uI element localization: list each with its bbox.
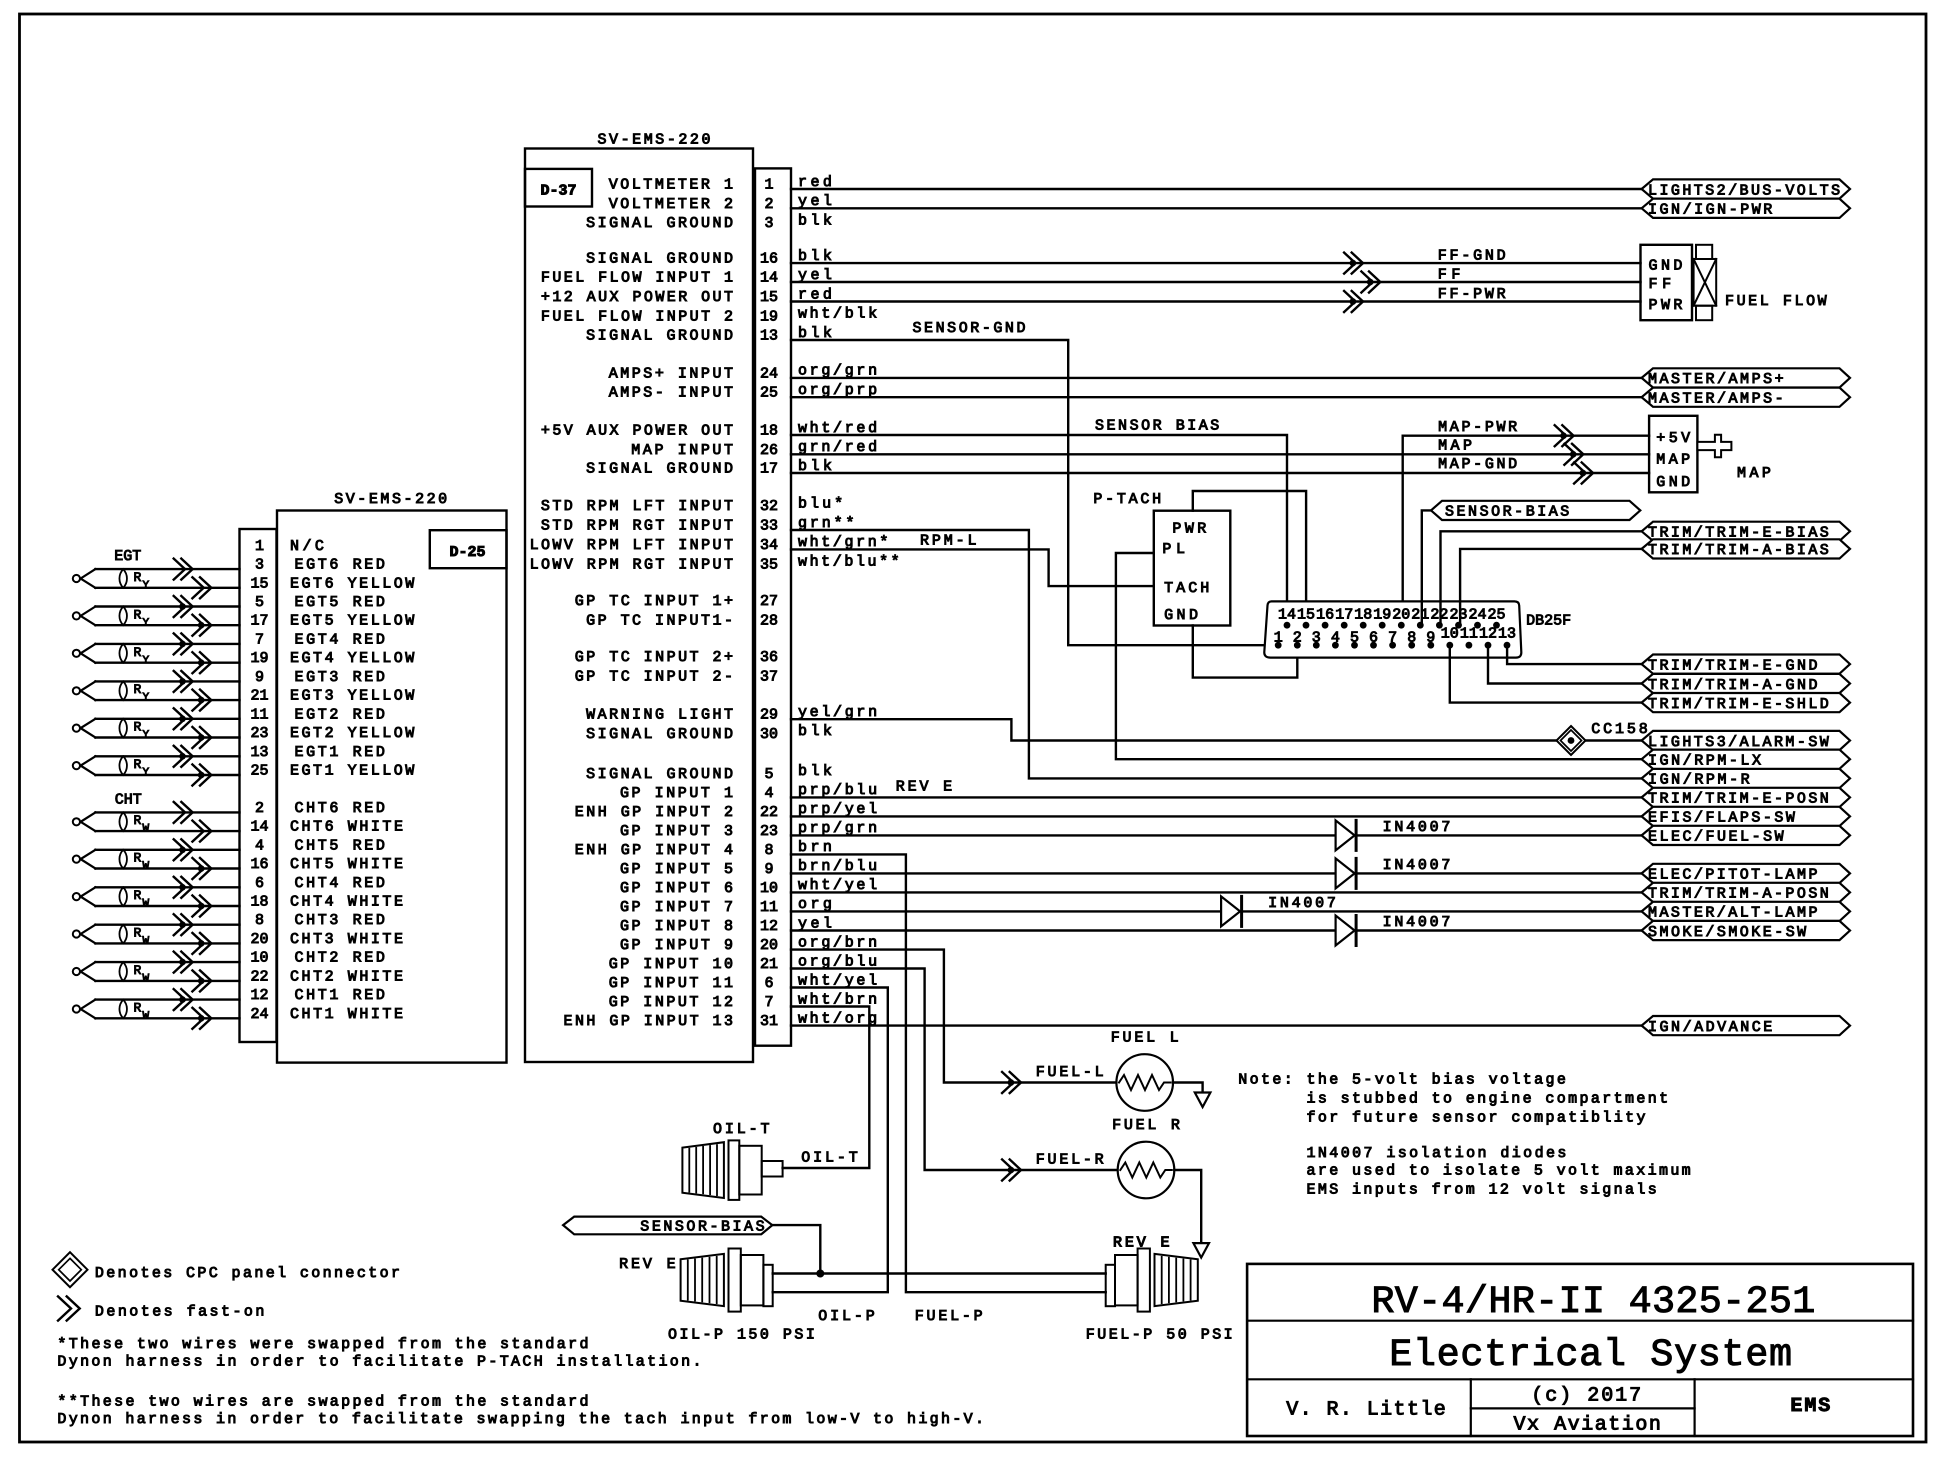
svg-text:VOLTMETER 1: VOLTMETER 1 [609, 177, 733, 194]
svg-text:28: 28 [760, 612, 778, 629]
MAP hose barb [1697, 435, 1731, 458]
connector D-37 label box [525, 169, 592, 207]
svg-text:2: 2 [255, 800, 264, 817]
svg-text:4: 4 [255, 837, 264, 854]
svg-text:8: 8 [764, 842, 773, 859]
svg-text:6: 6 [764, 975, 773, 992]
svg-text:29: 29 [760, 707, 778, 724]
fast-on CHT4 lead 2 [192, 896, 211, 917]
FUEL FLOW bottom lug [1696, 306, 1712, 321]
svg-text:17: 17 [1335, 606, 1353, 623]
net flag SENSOR-BIAS (upper) [1431, 501, 1640, 520]
fast-on EGT3 lead 2 [192, 690, 211, 711]
diode D1 IN4007 [1336, 820, 1355, 850]
svg-text:4: 4 [764, 785, 773, 802]
resistive sender FUEL L [1116, 1054, 1173, 1111]
svg-text:4: 4 [1331, 629, 1340, 646]
svg-text:27: 27 [760, 593, 778, 610]
net flag TRIM/TRIM-E-BIAS [1642, 522, 1850, 541]
svg-text:EGT4 YELLOW: EGT4 YELLOW [290, 650, 414, 667]
svg-text:16: 16 [760, 251, 778, 268]
net flag SMOKE/SMOKE-SW [1642, 921, 1850, 940]
wire EGT3 red lead [95, 680, 239, 682]
fast-on FF-GND [1344, 253, 1363, 274]
svg-text:17: 17 [250, 613, 268, 630]
sensor OIL-P flange [729, 1249, 741, 1312]
wire diode D1 to ELEC/FUEL-SW [1356, 834, 1642, 836]
svg-text:PWR: PWR [1649, 297, 1683, 314]
svg-text:OIL-P: OIL-P [818, 1308, 875, 1325]
svg-text:REV E: REV E [619, 1256, 676, 1273]
svg-text:19: 19 [760, 308, 778, 325]
svg-text:W: W [143, 1011, 150, 1023]
wire CHT6 red lead [95, 811, 239, 813]
svg-text:1: 1 [764, 177, 773, 194]
svg-text:25: 25 [1487, 606, 1505, 623]
svg-text:12: 12 [1479, 626, 1497, 643]
svg-text:R: R [134, 645, 142, 660]
net flag SENSOR-BIAS (lower) [563, 1217, 772, 1235]
svg-text:8: 8 [255, 912, 264, 929]
svg-text:R: R [134, 963, 142, 978]
svg-text:R: R [134, 813, 142, 828]
net flag TRIM/TRIM-E-SHLD [1642, 693, 1850, 712]
fast-on EGT2 lead 1 [174, 708, 193, 729]
svg-text:36: 36 [760, 649, 778, 666]
thermocouple probe EGT2 [73, 725, 80, 732]
wire DB25F pin12 to TRIM-A-GND [1488, 645, 1642, 683]
net flag MASTER/AMPS+ [1642, 368, 1850, 387]
thermocouple probe CHT5 [73, 856, 80, 863]
svg-text:R: R [134, 888, 142, 903]
wire CHT6 white lead [95, 830, 239, 832]
svg-text:W: W [143, 861, 150, 873]
fast-on EGT3 lead 1 [174, 671, 193, 692]
svg-text:W: W [143, 936, 150, 948]
fast-on EGT4 lead 2 [192, 652, 211, 673]
svg-text:Note: the 5-volt bias voltage: Note: the 5-volt bias voltage [1238, 1072, 1566, 1089]
connector D-37 pin column [755, 168, 791, 1045]
wire diode D4 to SMOKE/SMOKE-SW [1356, 929, 1642, 931]
svg-text:MAP INPUT: MAP INPUT [631, 442, 733, 459]
sensor OIL-P terminal [763, 1265, 772, 1306]
wire net MAP-PWR DB25F pin20 to MAP block [1403, 436, 1649, 626]
title block middle cell divider [1471, 1407, 1695, 1409]
svg-text:5: 5 [255, 594, 264, 611]
wire EGT6 yellow lead [95, 587, 239, 589]
wire net MAP (grn/red) pin26 to MAP block [791, 453, 1649, 455]
fast-on FF-PWR [1344, 291, 1363, 312]
svg-text:17: 17 [760, 461, 778, 478]
wire net OIL-P (wht/yel) pin6 to OIL-P sensor [773, 988, 888, 1293]
wire EGT6 red lead [95, 568, 239, 570]
title block vertical divider left [1470, 1379, 1472, 1436]
wire net SENSOR-GND (blk) pin13 to DB25F pin1 [791, 340, 1278, 645]
wire EGT4 red lead [95, 643, 239, 645]
wire net PITOT (brn/blu) pin9, diode feed [791, 872, 1336, 874]
fast-on CHT3 lead 1 [174, 914, 193, 935]
fast-on EGT4 lead 1 [174, 633, 193, 654]
svg-text:R: R [134, 720, 142, 735]
wire EGT1 red lead [95, 755, 239, 757]
wire DB25F pin13 to TRIM-E-GND [1507, 645, 1642, 664]
net flag TRIM/TRIM-A-POSN [1642, 883, 1850, 902]
svg-text:CHT: CHT [115, 791, 142, 808]
fast-on EGT1 lead 2 [192, 765, 211, 786]
svg-text:MASTER/ALT-LAMP: MASTER/ALT-LAMP [1648, 905, 1818, 922]
svg-text:+5V AUX POWER OUT: +5V AUX POWER OUT [541, 423, 733, 440]
svg-text:EGT1 YELLOW: EGT1 YELLOW [290, 763, 414, 780]
svg-text:OIL-T: OIL-T [713, 1121, 770, 1138]
svg-text:W: W [143, 898, 150, 910]
thermocouple probe EGT6 [73, 575, 80, 582]
wire DB25F pin10 to TRIM-E-SHLD [1450, 645, 1642, 702]
net flag EFIS/FLAPS-SW [1642, 807, 1850, 826]
svg-text:D-25: D-25 [449, 544, 485, 561]
connector D-37 body [525, 149, 753, 1063]
fast-on MAP-PWR [1555, 425, 1574, 446]
fast-on CHT2 lead 2 [192, 970, 211, 991]
svg-text:16: 16 [1316, 606, 1334, 623]
legend fast-on symbol [58, 1296, 80, 1320]
svg-text:9: 9 [1426, 629, 1435, 646]
net flag TRIM/TRIM-A-BIAS [1642, 539, 1850, 558]
svg-text:blk: blk [798, 723, 832, 740]
wire net RPM-L (wht/grn*) pin34 to P-TACH TACH [791, 549, 1154, 586]
svg-text:blk: blk [798, 212, 832, 229]
fast-on CHT1 lead 2 [192, 1008, 211, 1029]
title block divider 1 [1247, 1320, 1913, 1322]
wire EGT2 yellow lead [95, 736, 239, 738]
svg-text:EMS: EMS [1790, 1395, 1830, 1418]
title block vertical divider right [1693, 1379, 1695, 1436]
connector D-25 label box [430, 530, 507, 568]
svg-text:35: 35 [760, 556, 778, 573]
wire EGT1 yellow lead [95, 774, 239, 776]
wire net FF (yel) pin14 to FUEL FLOW [791, 281, 1641, 283]
fast-on CHT3 lead 2 [192, 933, 211, 954]
diode D3 IN4007 [1221, 896, 1240, 926]
fast-on FUEL-R [1002, 1160, 1021, 1181]
resistive sender FUEL R [1118, 1142, 1175, 1199]
svg-text:24: 24 [760, 365, 778, 382]
sensor OIL-T cone [682, 1142, 724, 1198]
svg-text:Electrical System: Electrical System [1389, 1333, 1792, 1377]
fast-on CHT5 lead 2 [192, 858, 211, 879]
diode D2 IN4007 [1336, 858, 1355, 888]
thermocouple probe CHT4 [73, 893, 80, 900]
svg-text:20: 20 [250, 931, 268, 948]
wire CHT3 white lead [95, 942, 239, 944]
svg-text:9: 9 [255, 669, 264, 686]
svg-text:7: 7 [764, 994, 773, 1011]
wire net WARNING LIGHT (yel/grn) pin29 to CC158 [791, 719, 1556, 740]
wire CHT1 red lead [95, 998, 239, 1000]
wire EGT5 red lead [95, 605, 239, 607]
svg-text:R: R [134, 682, 142, 697]
svg-text:Y: Y [143, 730, 150, 742]
wire net MAP-GND (blk) pin17 to MAP block [791, 472, 1649, 474]
wire P-TACH GND to DB25F pin2 [1193, 626, 1298, 678]
svg-text:MAP: MAP [1737, 465, 1771, 482]
wire net FF-GND (blk) pin16 to FUEL FLOW [791, 262, 1641, 264]
FUEL FLOW X-body [1694, 259, 1717, 306]
svg-text:blk: blk [798, 763, 832, 780]
svg-text:FUEL FLOW: FUEL FLOW [1725, 293, 1827, 310]
svg-text:Denotes CPC panel connector: Denotes CPC panel connector [95, 1265, 400, 1282]
svg-text:ENH GP INPUT 13: ENH GP INPUT 13 [564, 1013, 734, 1030]
svg-text:10: 10 [1441, 626, 1459, 643]
svg-text:19: 19 [250, 650, 268, 667]
thermocouple probe EGT4 [73, 650, 80, 657]
svg-text:AMPS- INPUT: AMPS- INPUT [609, 385, 733, 402]
svg-text:**These two wires are swapped: **These two wires are swapped from the s… [57, 1393, 588, 1410]
svg-text:IGN/IGN-PWR: IGN/IGN-PWR [1648, 202, 1772, 219]
wire net FUEL-L (org/brn) pin20 to FUEL L sender [791, 950, 1116, 1083]
sensor OIL-T terminal [762, 1161, 783, 1177]
svg-text:3: 3 [255, 557, 264, 574]
svg-text:15: 15 [250, 575, 268, 592]
svg-text:8: 8 [1407, 629, 1416, 646]
net flag ELEC/PITOT-LAMP [1642, 864, 1850, 883]
svg-text:19: 19 [1373, 606, 1391, 623]
svg-text:EGT6 YELLOW: EGT6 YELLOW [290, 575, 414, 592]
DB25F top row pin contacts 14-25 [1284, 622, 1291, 629]
sensor OIL-T flange [729, 1140, 740, 1200]
wire CHT4 red lead [95, 886, 239, 888]
svg-text:TRIM/TRIM-A-GND: TRIM/TRIM-A-GND [1648, 677, 1818, 694]
net flag LIGHTS2/BUS-VOLTS [1642, 179, 1850, 198]
fast-on EGT2 lead 2 [192, 727, 211, 748]
net flag MASTER/ALT-LAMP [1642, 902, 1850, 921]
fast-on CHT2 lead 1 [174, 952, 193, 973]
svg-text:PWR: PWR [1172, 520, 1206, 537]
svg-text:10: 10 [760, 880, 778, 897]
svg-text:7: 7 [1388, 629, 1397, 646]
svg-text:24: 24 [1468, 606, 1486, 623]
wire SENSOR-BIAS flag to DB25F pin21 [1422, 510, 1431, 625]
svg-text:31: 31 [760, 1013, 778, 1030]
svg-text:N/C: N/C [290, 538, 324, 555]
svg-text:11: 11 [760, 899, 778, 916]
sensor OIL-P body [741, 1255, 764, 1305]
svg-text:IGN/RPM-R: IGN/RPM-R [1648, 772, 1750, 789]
svg-text:STD RPM LFT INPUT: STD RPM LFT INPUT [541, 498, 733, 515]
wire SENSOR-BIAS to bias bus [772, 1225, 820, 1273]
sensor OIL-P cone [681, 1254, 724, 1306]
svg-text:12: 12 [250, 987, 268, 1004]
wire CC158 to LIGHTS3/ALARM-SW [1586, 739, 1642, 741]
svg-text:ELEC/PITOT-LAMP: ELEC/PITOT-LAMP [1648, 867, 1818, 884]
svg-text:wht/blk: wht/blk [798, 306, 877, 323]
wire net FF-PWR (red) pin15 to FUEL FLOW [791, 300, 1641, 302]
net flag IGN/RPM-R [1642, 769, 1850, 788]
sensor OIL-T body [739, 1146, 761, 1195]
svg-text:GND: GND [1164, 607, 1198, 624]
FUEL FLOW top lug [1696, 245, 1712, 259]
svg-text:R: R [134, 607, 142, 622]
svg-text:RV-4/HR-II 4325-251: RV-4/HR-II 4325-251 [1371, 1280, 1815, 1324]
svg-text:1: 1 [1274, 629, 1283, 646]
junction bias bus [816, 1270, 824, 1278]
svg-text:30: 30 [760, 726, 778, 743]
svg-text:LIGHTS2/BUS-VOLTS: LIGHTS2/BUS-VOLTS [1648, 182, 1840, 199]
svg-text:EGT5 YELLOW: EGT5 YELLOW [290, 613, 414, 630]
svg-text:R: R [134, 851, 142, 866]
svg-text:25: 25 [760, 385, 778, 402]
svg-text:6: 6 [255, 875, 264, 892]
wire net VOLTMETER2 (yel) pin2 to IGN/IGN-PWR [791, 207, 1642, 209]
net flag TRIM/TRIM-A-GND [1642, 674, 1850, 693]
svg-text:14: 14 [250, 819, 268, 836]
svg-text:20: 20 [1392, 606, 1410, 623]
wire net OIL-T (wht/brn) pin7 to OIL-T sensor [783, 1007, 870, 1169]
module FUEL FLOW body [1641, 245, 1693, 320]
wire net AMPS+ pin24 to MASTER/AMPS+ [791, 377, 1642, 379]
fast-on EGT5 lead 1 [174, 596, 193, 617]
svg-text:R: R [134, 926, 142, 941]
wire TRIM-A-BIAS to DB25F pin23 [1460, 549, 1642, 625]
wire EGT3 yellow lead [95, 699, 239, 701]
svg-text:AMPS+ INPUT: AMPS+ INPUT [609, 365, 733, 382]
fast-on MAP [1564, 444, 1583, 465]
fast-on FF [1361, 272, 1380, 293]
wire FUEL L to ground [1173, 1083, 1203, 1093]
svg-text:FUEL FLOW INPUT 1: FUEL FLOW INPUT 1 [541, 270, 733, 287]
fast-on EGT1 lead 1 [174, 746, 193, 767]
wire net TRIM-A-POSN (wht/yel) pin10 [791, 891, 1642, 893]
svg-text:DB25F: DB25F [1526, 613, 1571, 630]
wire net IGN/ADVANCE (wht/org) pin31 [791, 1024, 1642, 1026]
fast-on EGT5 lead 2 [192, 615, 211, 636]
svg-text:11: 11 [1460, 626, 1478, 643]
svg-text:16: 16 [250, 856, 268, 873]
svg-text:14: 14 [760, 270, 778, 287]
sensor FUEL-P body [1115, 1255, 1138, 1305]
wire net REV E (prp/blu) pin4 to TRIM/TRIM-E-POSN [791, 796, 1642, 798]
thermocouple probe CHT1 [73, 1005, 80, 1012]
thermocouple probe CHT6 [73, 818, 80, 825]
svg-text:1: 1 [255, 538, 264, 555]
wire FUEL R to ground [1174, 1170, 1201, 1243]
wire CHT5 red lead [95, 849, 239, 851]
svg-text:34: 34 [760, 537, 778, 554]
svg-text:Y: Y [143, 617, 150, 629]
svg-text:Vx Aviation: Vx Aviation [1514, 1414, 1661, 1437]
svg-text:SENSOR BIAS: SENSOR BIAS [1095, 418, 1219, 435]
wire EGT5 yellow lead [95, 624, 239, 626]
svg-text:10: 10 [250, 950, 268, 967]
svg-text:3: 3 [764, 215, 773, 232]
thermocouple probe EGT5 [73, 612, 80, 619]
svg-text:+5V: +5V [1656, 430, 1690, 447]
svg-text:21: 21 [1411, 606, 1429, 623]
wire diode D3 to MASTER/ALT-LAMP [1242, 910, 1642, 912]
svg-text:EGT: EGT [114, 548, 141, 565]
svg-text:SENSOR-BIAS: SENSOR-BIAS [640, 1219, 764, 1236]
svg-text:EGT2 YELLOW: EGT2 YELLOW [290, 725, 414, 742]
svg-text:13: 13 [760, 328, 778, 345]
thermocouple probe CHT3 [73, 930, 80, 937]
svg-text:22: 22 [250, 968, 268, 985]
fast-on CHT6 lead 2 [192, 821, 211, 842]
svg-text:37: 37 [760, 668, 778, 685]
svg-text:12: 12 [760, 918, 778, 935]
svg-text:GND: GND [1649, 258, 1683, 275]
svg-text:GP INPUT 12: GP INPUT 12 [609, 994, 733, 1011]
wire net FUEL-R (org/blu) pin21 to FUEL R sender [791, 969, 1118, 1171]
thermocouple probe EGT1 [73, 762, 80, 769]
sensor FUEL-P cone [1155, 1254, 1198, 1306]
svg-text:18: 18 [1354, 606, 1372, 623]
wire net SENSOR BIAS (wht/red) pin18 to DB25F pin14 [791, 435, 1287, 625]
svg-text:REV E: REV E [896, 779, 953, 796]
svg-text:Dynon harness in order to faci: Dynon harness in order to facilitate P-T… [57, 1354, 701, 1371]
svg-text:33: 33 [760, 518, 778, 535]
thermocouple probe CHT2 [73, 968, 80, 975]
svg-text:23: 23 [760, 823, 778, 840]
svg-text:Y: Y [143, 655, 150, 667]
svg-text:MAP-PWR: MAP-PWR [1438, 419, 1517, 436]
svg-text:5: 5 [1350, 629, 1359, 646]
wire TRIM-E-BIAS to DB25F pin22 [1441, 531, 1642, 625]
legend CPC panel connector symbol [53, 1252, 88, 1287]
svg-text:MAP: MAP [1438, 438, 1472, 455]
svg-text:25: 25 [250, 763, 268, 780]
svg-text:GP INPUT 11: GP INPUT 11 [609, 975, 733, 992]
svg-text:13: 13 [250, 744, 268, 761]
connector D-25 pin column [240, 529, 277, 1042]
wire net VOLTMETER1 (red) pin1 to LIGHTS2/BUS-VOLTS [791, 188, 1642, 190]
wire P-TACH PL to IGN/RPM-LX [1116, 553, 1642, 759]
sensor FUEL-P terminal [1106, 1265, 1115, 1306]
fast-on MAP-GND [1574, 463, 1593, 484]
svg-text:wht/blu**: wht/blu** [798, 554, 900, 571]
module P-TACH body [1154, 511, 1231, 626]
svg-text:R: R [134, 757, 142, 772]
wire CHT4 white lead [95, 905, 239, 907]
svg-text:3: 3 [1312, 629, 1321, 646]
fast-on CHT5 lead 1 [174, 839, 193, 860]
svg-text:26: 26 [760, 442, 778, 459]
wire EGT4 yellow lead [95, 662, 239, 664]
svg-text:23: 23 [1449, 606, 1467, 623]
wire net RPM-R (grn**) pin33 to IGN/RPM-R [791, 530, 1642, 778]
svg-text:Y: Y [143, 580, 150, 592]
net flag TRIM/TRIM-E-GND [1642, 655, 1850, 674]
svg-text:V. R. Little: V. R. Little [1286, 1399, 1446, 1422]
sensor FUEL-P flange [1138, 1249, 1150, 1312]
svg-text:11: 11 [250, 706, 268, 723]
net flag IGN/RPM-LX [1642, 750, 1850, 769]
svg-text:Denotes fast-on: Denotes fast-on [95, 1304, 265, 1321]
wire CHT2 red lead [95, 961, 239, 963]
svg-text:21: 21 [250, 688, 268, 705]
net flag LIGHTS3/ALARM-SW [1642, 731, 1850, 750]
DB25F bottom row pin contacts 1-13 [1275, 642, 1282, 649]
svg-text:18: 18 [250, 894, 268, 911]
wire net AMPS- pin25 to MASTER/AMPS- [791, 396, 1642, 398]
svg-text:MAP: MAP [1656, 452, 1690, 469]
svg-text:Y: Y [143, 692, 150, 704]
wire CHT5 white lead [95, 867, 239, 869]
svg-text:18: 18 [760, 423, 778, 440]
svg-text:2: 2 [1293, 629, 1302, 646]
svg-text:+12 AUX POWER OUT: +12 AUX POWER OUT [541, 289, 733, 306]
wire net ALT-LAMP (org) pin11, diode feed [791, 910, 1221, 912]
connector DB25F outline [1264, 601, 1521, 657]
svg-text:*These two wires were swapped: *These two wires were swapped from the s… [57, 1336, 588, 1353]
